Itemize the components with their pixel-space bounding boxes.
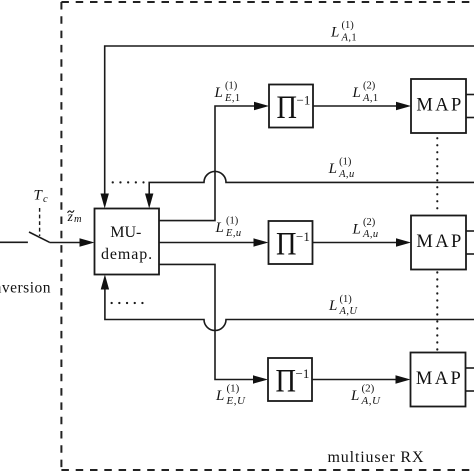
label L_A,U^(1) bbox=[328, 294, 358, 317]
wire: L_A,U^(2) from P^-1 row3 to MAP row3 (arrow) bbox=[312, 379, 398, 381]
wire: feedback L_A,1^(1) from right edge into MU-demap top (arrow) bbox=[105, 46, 474, 196]
label L_A,1^(1) bbox=[330, 20, 357, 43]
svg-text:MU-: MU- bbox=[110, 224, 141, 241]
wire: feedback L_A,U^(1) from right edge, hops under L_E,U line, into MU-demap bottom (arrow) bbox=[105, 287, 474, 331]
svg-text:A,U: A,U bbox=[339, 306, 359, 317]
label L_A,u^(2) bbox=[352, 217, 379, 240]
svg-text:Π: Π bbox=[276, 227, 297, 263]
label L_E,u^(1) bbox=[215, 216, 242, 239]
label L_E,1^(1) bbox=[214, 81, 241, 104]
svg-text:L: L bbox=[352, 221, 361, 237]
svg-text:E,U: E,U bbox=[226, 395, 246, 407]
block: deinterleaver P^-1 row3 bbox=[268, 358, 312, 401]
svg-text:E,u: E,u bbox=[225, 228, 242, 239]
label L_A,U^(2) bbox=[350, 382, 381, 407]
svg-text:m: m bbox=[74, 214, 82, 225]
svg-text:MAP: MAP bbox=[416, 232, 463, 252]
svg-text:(1): (1) bbox=[225, 81, 238, 92]
svg-text:downconversion: downconversion bbox=[0, 280, 51, 297]
svg-text:(1): (1) bbox=[339, 157, 352, 168]
block: deinterleaver P^-1 row1 bbox=[269, 85, 313, 128]
svg-text:A,u: A,u bbox=[338, 169, 355, 180]
svg-text:L: L bbox=[214, 85, 223, 101]
wire: L_A,1^(2) from P^-1 row1 to MAP row1 (arrow) bbox=[313, 105, 398, 107]
wire: MAP row1 output lower (to right edge) bbox=[466, 117, 474, 119]
wire: MAP row3 output lower (to right edge) bbox=[466, 390, 474, 392]
wire: L_E,1 from MU-demap up to interleaver-inverse row1 (arrow) bbox=[159, 106, 256, 221]
svg-text:c: c bbox=[43, 194, 48, 205]
block: MAP decoder row1 bbox=[411, 79, 466, 133]
svg-text:multiuser RX: multiuser RX bbox=[328, 449, 425, 466]
svg-text:A,1: A,1 bbox=[362, 93, 379, 104]
wire: MAP row1 output upper (to right edge) bbox=[466, 94, 474, 96]
svg-text:L: L bbox=[215, 220, 224, 236]
wire: MAP row2 output lower (to right edge) bbox=[466, 253, 474, 255]
switch: sampler (dashed actuation stub) bbox=[39, 208, 41, 236]
block: deinterleaver P^-1 row2 bbox=[269, 221, 313, 264]
dots: continuation (users between 1 and u) on demap top feedback bbox=[113, 181, 144, 183]
svg-text:(2): (2) bbox=[363, 81, 376, 92]
label L_A,1^(2) bbox=[352, 81, 379, 104]
wire: L_E,U from MU-demap down to P^-1 row3 (arrow) bbox=[159, 264, 255, 379]
svg-text:A,U: A,U bbox=[361, 395, 381, 407]
svg-text:(1): (1) bbox=[342, 20, 355, 31]
block: MU-demapper bbox=[95, 209, 160, 275]
svg-text:L: L bbox=[328, 298, 337, 314]
svg-text:demap.: demap. bbox=[101, 246, 153, 263]
wire: RF input into switch bbox=[0, 241, 28, 243]
dots: continuation (users between u and U) on demap bottom feedback bbox=[112, 302, 144, 304]
wire: feedback L_A,u^(1) from right edge, hops over L_E,1 line, into MU-demap top (arrow) bbox=[149, 171, 474, 196]
wire: L_E,u from MU-demap straight to P^-1 row2 (arrow) bbox=[159, 242, 256, 244]
block: MAP decoder row2 bbox=[411, 216, 466, 270]
svg-text:A,1: A,1 bbox=[341, 32, 358, 43]
svg-text:(1): (1) bbox=[227, 382, 240, 394]
svg-text:MAP: MAP bbox=[416, 96, 463, 116]
node Tc : sampling-period label bbox=[34, 188, 49, 206]
block: MAP decoder row3 bbox=[411, 353, 466, 407]
svg-text:A,u: A,u bbox=[362, 229, 379, 240]
svg-text:(2): (2) bbox=[362, 382, 375, 394]
svg-text:(2): (2) bbox=[363, 217, 376, 228]
wire: MAP row2 output upper (to right edge) bbox=[466, 230, 474, 232]
switch blade bbox=[29, 232, 50, 242]
svg-text:−1: −1 bbox=[296, 366, 310, 381]
svg-text:Π: Π bbox=[276, 364, 297, 400]
svg-text:T: T bbox=[34, 188, 44, 204]
svg-text:E,1: E,1 bbox=[224, 93, 241, 104]
svg-text:L: L bbox=[330, 25, 339, 41]
svg-text:−1: −1 bbox=[297, 93, 311, 108]
svg-text:Π: Π bbox=[277, 90, 298, 126]
svg-text:MAP: MAP bbox=[416, 369, 463, 389]
svg-text:L: L bbox=[352, 85, 361, 101]
svg-text:L: L bbox=[350, 388, 359, 404]
svg-text:L: L bbox=[328, 161, 337, 177]
svg-text:L: L bbox=[215, 388, 224, 404]
wire: MAP row3 output upper (to right edge) bbox=[466, 367, 474, 369]
svg-text:(1): (1) bbox=[226, 216, 239, 227]
wire: sampled signal z~m into MU-demap (arrow) bbox=[50, 242, 83, 244]
dots: vertical continuation between MAP row1 and MAP row2 bbox=[436, 138, 438, 209]
svg-text:(1): (1) bbox=[340, 294, 353, 305]
svg-text:−1: −1 bbox=[296, 229, 310, 244]
node z~m label bbox=[67, 209, 82, 225]
wire: L_A,u^(2) from P^-1 row2 to MAP row2 (arrow) bbox=[313, 242, 399, 244]
label L_E,U^(1) bbox=[215, 382, 246, 407]
label L_A,u^(1) bbox=[328, 157, 355, 180]
dots: vertical continuation between MAP row2 and MAP row3 bbox=[436, 272, 438, 349]
